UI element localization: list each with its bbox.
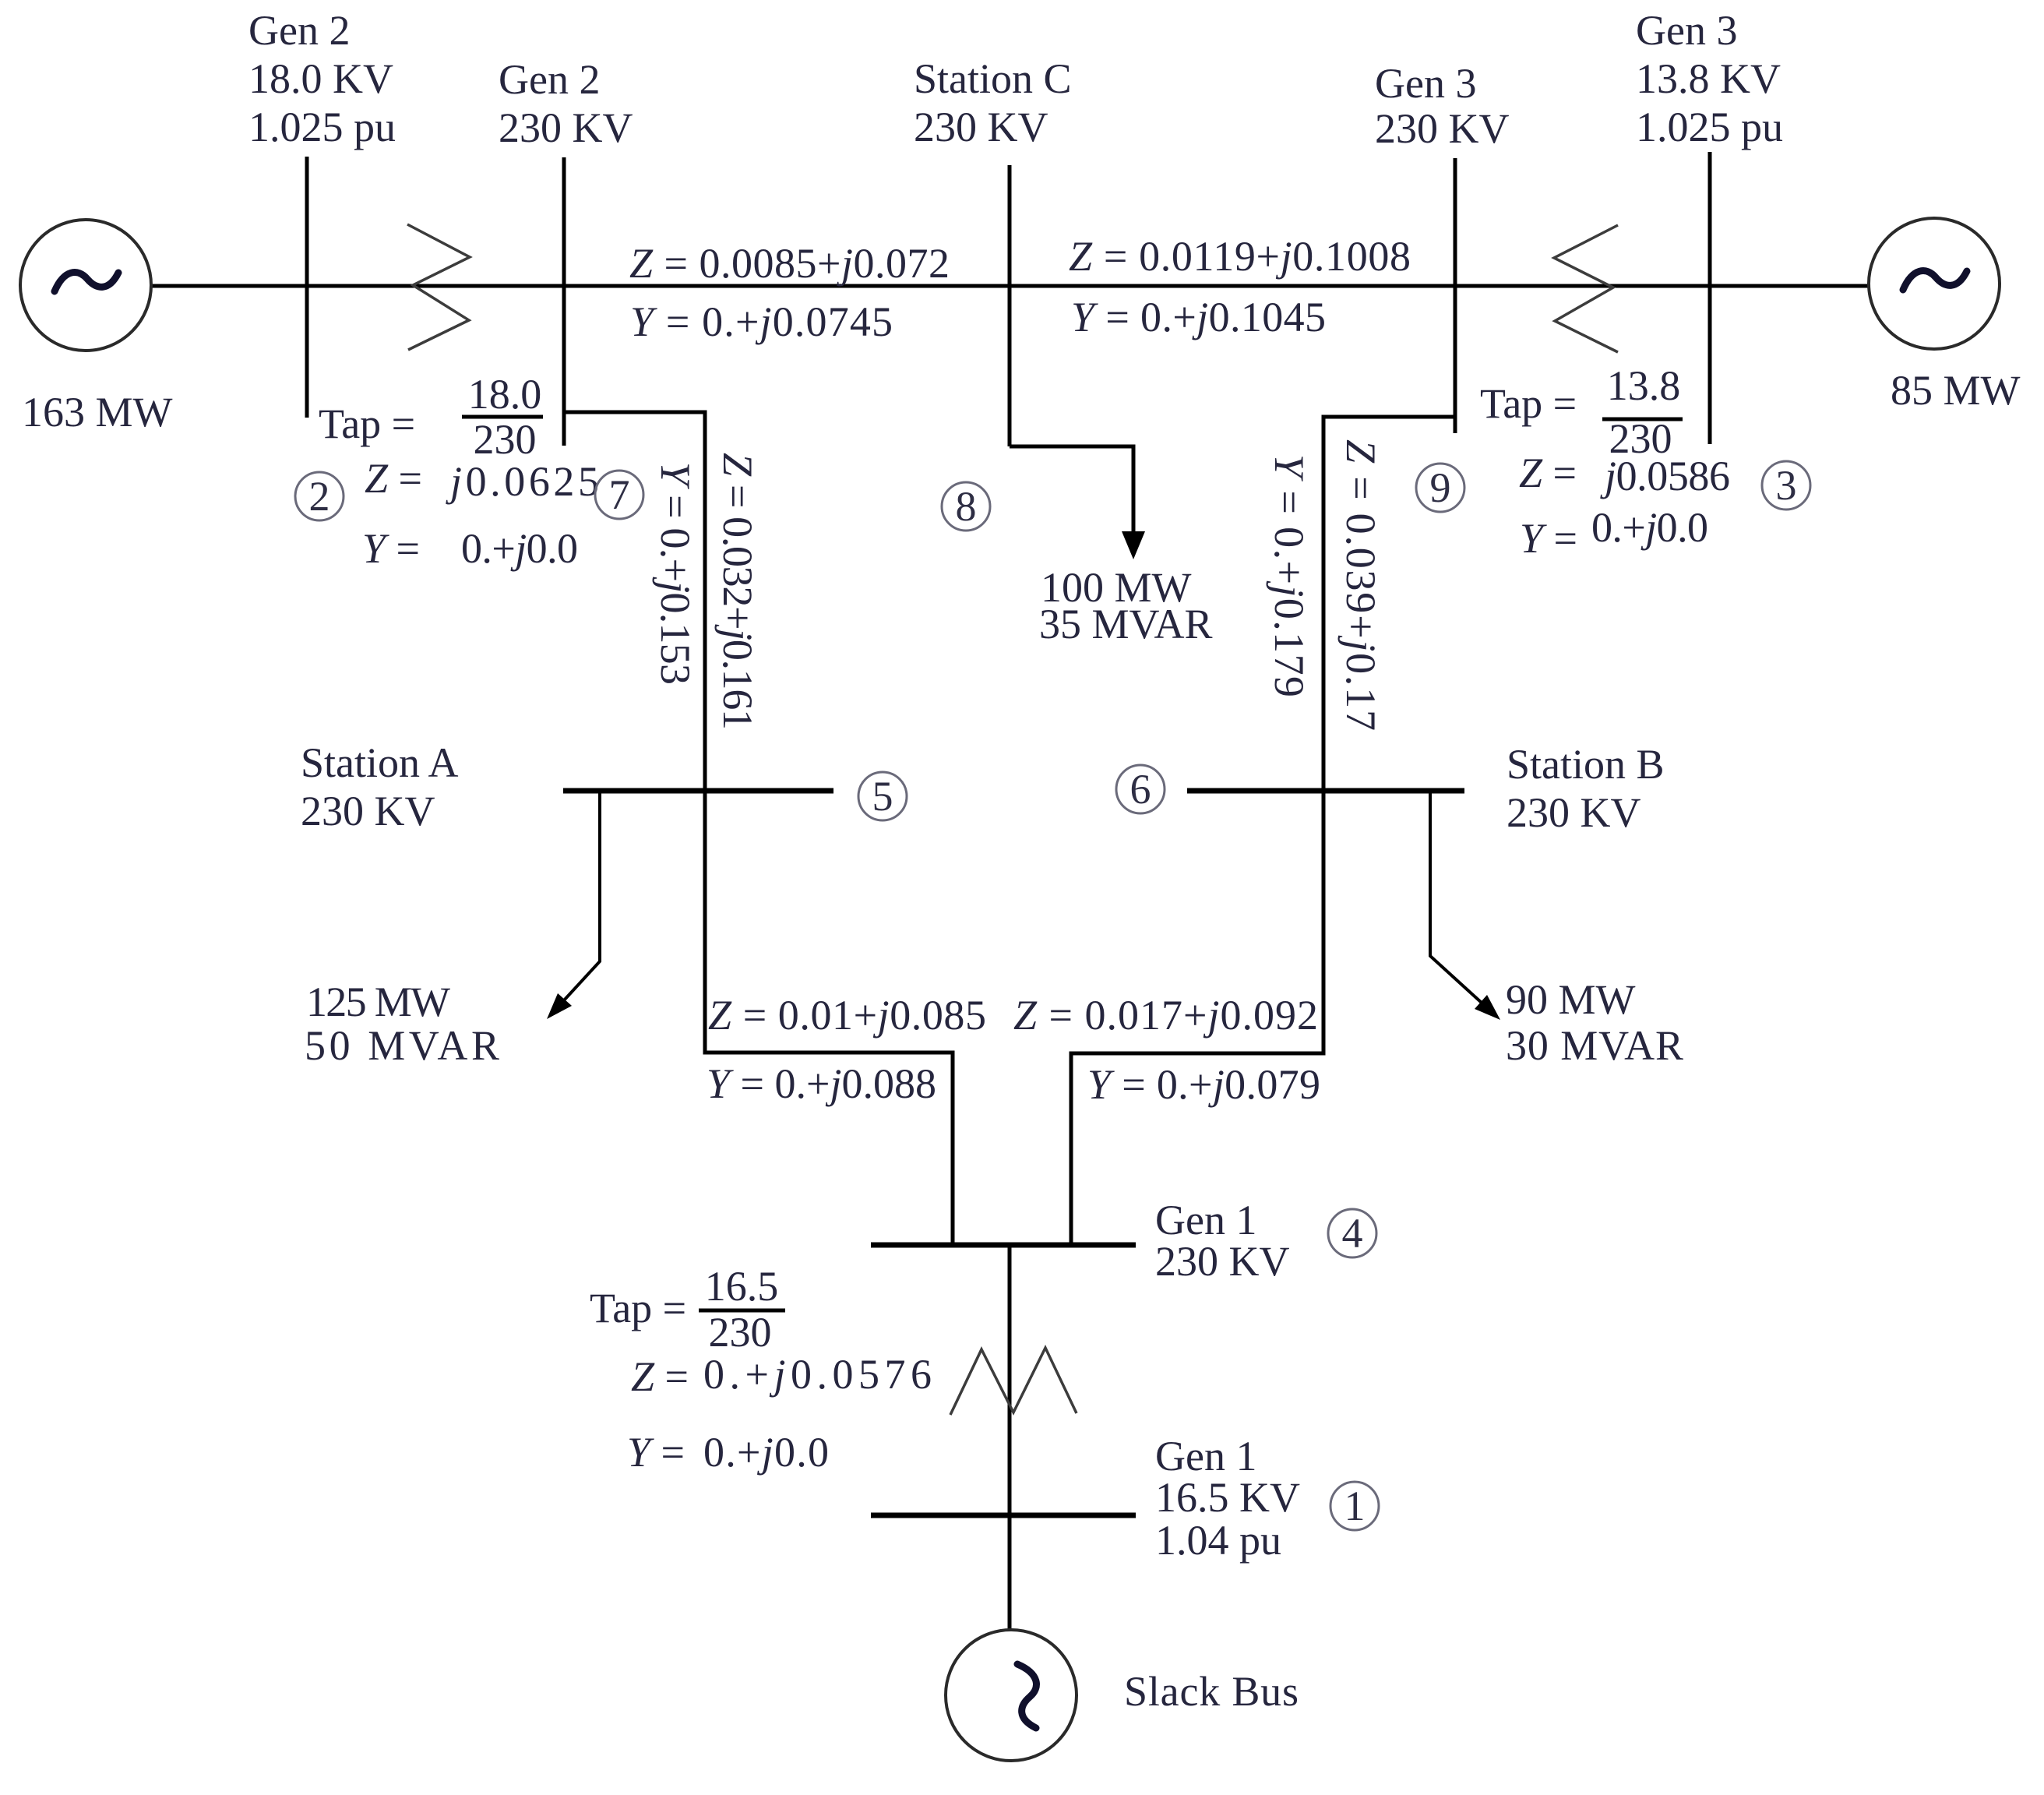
bus 5: Station A 230 kV bus bar — [563, 788, 833, 794]
svg-text:0.+j0.0576: 0.+j0.0576 — [703, 1351, 932, 1398]
svg-text:Y = 0.+j0.088: Y = 0.+j0.088 — [707, 1060, 936, 1107]
bus 8: Station C 230 kV bus bar — [1008, 165, 1012, 446]
label: Y = 0.+j0.0 for T1 — [627, 1429, 829, 1476]
transformer T2 (zigzag between bus 2 and bus 7) — [407, 224, 470, 350]
svg-text:Gen 3: Gen 3 — [1375, 60, 1476, 107]
node 3 circled — [1762, 461, 1810, 510]
svg-text:Z = 0.0085+j0.072: Z = 0.0085+j0.072 — [629, 240, 950, 287]
svg-text:6: 6 — [1130, 766, 1151, 813]
svg-text:18.0 KV: 18.0 KV — [248, 55, 393, 102]
node 4 circled — [1328, 1209, 1376, 1257]
svg-text:230: 230 — [474, 416, 537, 463]
svg-text:230 KV: 230 KV — [1155, 1238, 1290, 1285]
svg-text:9: 9 — [1430, 464, 1451, 511]
svg-text:Z = 0.0119+j0.1008: Z = 0.0119+j0.1008 — [1069, 233, 1411, 280]
node 2 circled — [295, 472, 344, 520]
svg-text:Y =: Y = — [362, 525, 420, 572]
generator G3 (85 MW machine) — [1869, 218, 2000, 349]
node 6 circled — [1116, 765, 1165, 813]
svg-text:90 MW: 90 MW — [1506, 976, 1636, 1023]
svg-text:85 MW: 85 MW — [1891, 367, 2021, 414]
bus 9: Gen 3 230 kV bus bar — [1454, 158, 1457, 433]
svg-text:Z = 0.017+j0.092: Z = 0.017+j0.092 — [1013, 992, 1318, 1039]
transformer T1 (zigzag between bus 4 and bus 1) — [950, 1348, 1077, 1415]
svg-text:Y = 0.+j0.079: Y = 0.+j0.079 — [1087, 1061, 1320, 1108]
svg-text:Slack Bus: Slack Bus — [1124, 1668, 1299, 1715]
label: Y = 0.+j0.0 for T2 — [362, 525, 578, 572]
svg-text:0.+j0.0: 0.+j0.0 — [703, 1429, 829, 1476]
label: Gen 3 13.8 KV 1.025 pu — [1636, 7, 1783, 150]
label: 100 MW 35 MVAR — [1039, 564, 1213, 647]
node 8 circled — [942, 482, 990, 531]
svg-text:Y =: Y = — [1520, 515, 1577, 562]
svg-text:1.025 pu: 1.025 pu — [248, 104, 396, 150]
svg-text:Station A: Station A — [301, 739, 459, 786]
svg-text:Station B: Station B — [1507, 741, 1665, 788]
svg-text:1.025 pu: 1.025 pu — [1636, 104, 1783, 150]
label: Station B 230 KV — [1507, 741, 1665, 836]
wire: line 7-5 (bus 7 down to station A) — [564, 412, 705, 791]
svg-text:Y =: Y = — [627, 1429, 685, 1476]
bus 1: Gen 1 16.5 kV bus bar — [871, 1513, 1136, 1518]
label: 90 MW 30 MVAR — [1506, 976, 1683, 1069]
label: Tap = 13.8/230 for T3 — [1480, 362, 1683, 462]
bus 7: Gen 2 230 kV bus bar — [562, 157, 566, 446]
wire: main 230kV tie line bus7-bus8-bus9 — [151, 284, 1869, 288]
wire: station B load drop — [1430, 791, 1491, 1011]
svg-text:Gen 1: Gen 1 — [1155, 1433, 1256, 1479]
svg-text:5: 5 — [872, 773, 893, 820]
svg-text:18.0: 18.0 — [468, 371, 542, 418]
label: 125 MW 50 MVAR — [305, 979, 499, 1069]
svg-text:Gen 1: Gen 1 — [1155, 1197, 1256, 1243]
svg-text:230: 230 — [709, 1309, 772, 1356]
svg-text:Y = 0.+j0.153: Y = 0.+j0.153 — [652, 462, 699, 685]
svg-text:8: 8 — [956, 483, 977, 530]
svg-text:4: 4 — [1342, 1210, 1363, 1257]
svg-text:2: 2 — [309, 473, 330, 520]
node 1 circled — [1330, 1482, 1379, 1530]
node 9 circled — [1416, 464, 1464, 512]
svg-text:Z =: Z = — [1519, 450, 1577, 496]
svg-text:125 MW: 125 MW — [306, 979, 450, 1025]
svg-text:230 KV: 230 KV — [914, 104, 1048, 150]
wire: line 5-4 (station A down to bus 4) — [705, 791, 953, 1245]
label: Z = 0.+j0.0576 for T1 — [631, 1351, 932, 1400]
svg-text:Tap =: Tap = — [590, 1285, 686, 1331]
bus 4: Gen 1 230 kV bus bar — [871, 1243, 1136, 1248]
svg-text:Gen 2: Gen 2 — [499, 56, 600, 103]
svg-text:j0.0586: j0.0586 — [1600, 453, 1730, 499]
svg-text:0.+j0.0: 0.+j0.0 — [461, 525, 578, 572]
svg-text:Tap =: Tap = — [319, 400, 415, 447]
svg-text:230 KV: 230 KV — [301, 788, 435, 834]
node 5 circled — [858, 772, 907, 820]
svg-text:30 MVAR: 30 MVAR — [1506, 1022, 1683, 1069]
label: Station C 230 KV — [914, 55, 1072, 150]
load arrow at station A — [547, 993, 572, 1019]
svg-text:Y = 0.+j0.179: Y = 0.+j0.179 — [1266, 454, 1313, 697]
svg-text:1: 1 — [1344, 1483, 1366, 1529]
label: Gen 1 16.5 KV 1.04 pu — [1155, 1433, 1300, 1564]
svg-text:3: 3 — [1776, 462, 1797, 509]
load arrow at station C — [1122, 531, 1145, 559]
svg-text:230 KV: 230 KV — [1375, 105, 1510, 152]
label: Z = j0.0586 for T3 — [1519, 450, 1730, 499]
load arrow at station B — [1475, 995, 1500, 1020]
svg-text:0.+j0.0: 0.+j0.0 — [1591, 504, 1708, 551]
bus 3: Gen 3 13.8 kV bus bar — [1708, 152, 1712, 444]
svg-text:13.8: 13.8 — [1607, 362, 1681, 409]
svg-text:Z =: Z = — [365, 455, 422, 502]
svg-text:230 KV: 230 KV — [499, 104, 633, 151]
svg-text:Z = 0.032+j0.161: Z = 0.032+j0.161 — [714, 453, 761, 730]
wire: line 6-4 (station B down to bus 4) — [1071, 791, 1323, 1245]
svg-text:Y = 0.+j0.1045: Y = 0.+j0.1045 — [1071, 294, 1326, 340]
label: Gen 3 230 KV — [1375, 60, 1510, 152]
svg-text:Station C: Station C — [914, 55, 1072, 102]
svg-text:16.5 KV: 16.5 KV — [1155, 1474, 1300, 1521]
label: Z = j0.0625 for T2 — [365, 455, 599, 505]
svg-text:Gen 2: Gen 2 — [248, 7, 350, 54]
wire: station C load feeder — [1010, 446, 1133, 545]
wire: bus 1 down to slack generator — [1008, 1515, 1012, 1630]
label: Gen 2 18.0 KV 1.025 pu — [248, 7, 396, 150]
label: Gen 1 230 KV — [1155, 1197, 1290, 1285]
bus 2: Gen 2 18.0 kV bus bar — [305, 157, 309, 418]
node 7 circled — [595, 471, 643, 519]
label: Gen 2 230 KV — [499, 56, 633, 151]
svg-text:Gen 3: Gen 3 — [1636, 7, 1737, 54]
label: Station A 230 KV — [301, 739, 459, 834]
transformer T3 (zigzag between bus 9 and bus 3) — [1554, 225, 1618, 352]
svg-text:Y = 0.+j0.0745: Y = 0.+j0.0745 — [630, 298, 893, 345]
svg-text:35 MVAR: 35 MVAR — [1039, 601, 1213, 647]
svg-text:Z = 0.039+j0.17: Z = 0.039+j0.17 — [1337, 439, 1384, 731]
svg-text:7: 7 — [609, 471, 630, 518]
svg-text:Z = 0.01+j0.085: Z = 0.01+j0.085 — [708, 992, 986, 1039]
svg-text:13.8 KV: 13.8 KV — [1636, 55, 1781, 102]
label: Tap = 18.0/230 for T2 — [319, 371, 543, 463]
wire: line 9-6 (bus 9 down to station B) — [1323, 417, 1455, 791]
svg-text:Tap =: Tap = — [1480, 380, 1577, 427]
svg-text:1.04 pu: 1.04 pu — [1155, 1517, 1281, 1564]
wire: station A load drop — [555, 791, 600, 1010]
label: Y = 0.+j0.0 for T3 — [1520, 504, 1708, 562]
generator G2 (163 MW machine) — [20, 220, 151, 351]
svg-text:16.5: 16.5 — [705, 1263, 779, 1310]
generator G1 slack machine — [946, 1630, 1077, 1761]
svg-text:163 MW: 163 MW — [22, 389, 173, 436]
svg-text:Z =: Z = — [631, 1353, 689, 1400]
wire: bus 4 to bus 1 through T1 — [1008, 1245, 1012, 1515]
bus 6: Station B 230 kV bus bar — [1187, 788, 1464, 794]
label: Tap = 16.5/230 for T1 — [590, 1263, 785, 1356]
svg-text:230 KV: 230 KV — [1507, 789, 1641, 836]
